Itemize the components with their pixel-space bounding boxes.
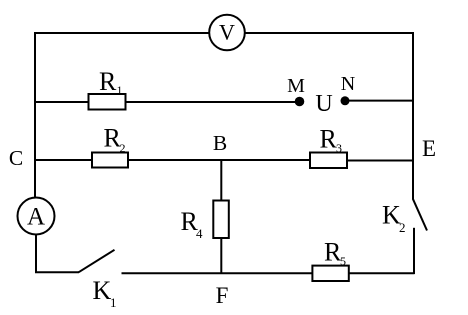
svg-text:2: 2 [399, 220, 406, 235]
svg-text:5: 5 [340, 254, 346, 268]
svg-text:R: R [320, 124, 338, 153]
resistor R3 box [310, 153, 347, 169]
svg-text:1: 1 [117, 83, 123, 97]
svg-text:2: 2 [120, 141, 126, 155]
svg-text:M: M [287, 75, 305, 97]
wire right vertical lower [413, 228, 415, 274]
svg-text:U: U [315, 91, 332, 117]
wire node B down to R4 [220, 160, 222, 201]
wire R3 to E [347, 160, 414, 162]
wire voltmeter to top-right [245, 32, 413, 34]
wire R1 to node M [126, 101, 298, 103]
svg-text:K: K [93, 276, 112, 305]
svg-text:1: 1 [110, 295, 117, 310]
svg-text:3: 3 [336, 141, 342, 155]
wire R4 to node F [220, 238, 222, 274]
svg-text:E: E [422, 136, 436, 161]
switch K1 blade [79, 250, 115, 272]
svg-text:A: A [27, 204, 45, 231]
wire right vertical upper [412, 32, 414, 199]
wire row2 left [35, 101, 89, 103]
ammeter A circle [18, 198, 55, 235]
wire R5 to bottom-right corner [349, 272, 415, 274]
wire K1 to R5 [122, 272, 314, 274]
wire left vertical upper [34, 32, 36, 198]
resistor R2 box [92, 153, 128, 168]
voltmeter V circle [209, 15, 245, 51]
wire node N to right vertical [348, 100, 413, 102]
resistor R4 box [213, 201, 229, 239]
resistor R5 box [312, 266, 348, 281]
svg-text:C: C [9, 146, 23, 170]
node M dot [295, 97, 305, 107]
wire bottom-left to switch K1 [35, 271, 79, 273]
svg-text:R: R [99, 67, 117, 96]
switch K2 blade [413, 199, 427, 231]
wire ammeter to bottom-left corner [35, 235, 37, 274]
resistor R1 box [89, 94, 126, 110]
svg-text:B: B [213, 131, 227, 155]
svg-text:V: V [219, 20, 235, 45]
svg-text:4: 4 [196, 226, 203, 241]
svg-text:N: N [341, 73, 355, 95]
wire R2 to R3 through node B [128, 159, 310, 161]
wire top-left to voltmeter [35, 32, 210, 34]
wire C to R2 [35, 159, 93, 161]
svg-text:F: F [216, 283, 229, 308]
node N dot [341, 96, 350, 105]
